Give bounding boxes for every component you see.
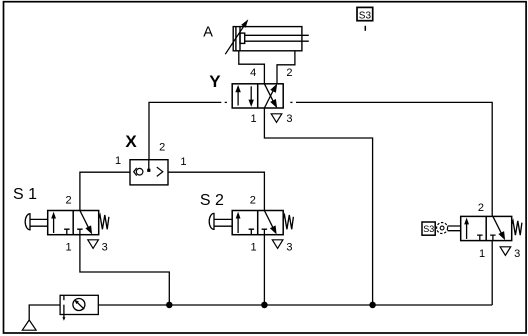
junction dot 3 xyxy=(369,302,376,309)
valve Y left cell up arrow xyxy=(237,89,239,106)
svg-text:2: 2 xyxy=(65,195,71,207)
valve S1 left cell blocked port xyxy=(64,229,70,235)
valve S1 3/2 body xyxy=(48,211,99,235)
cylinder A body xyxy=(233,27,309,51)
junction dot 2 xyxy=(261,302,268,309)
pilot line Y right (dash-dot) to valve S3 port 2 xyxy=(290,102,492,216)
valve S1 right cell blocked port xyxy=(77,229,83,235)
valve Y exhaust triangle port 3 xyxy=(271,114,282,123)
shuttle valve X ball xyxy=(136,168,143,175)
S3 position tick xyxy=(364,26,366,31)
shuttle valve X body xyxy=(130,160,168,185)
svg-text:2: 2 xyxy=(159,141,165,153)
shuttle valve X left seat xyxy=(134,168,137,176)
svg-text:4: 4 xyxy=(250,67,256,79)
svg-text:Y: Y xyxy=(209,72,221,91)
svg-text:3: 3 xyxy=(514,248,520,260)
wire valve S2 port 1 to supply xyxy=(263,235,265,305)
valve S2 push button xyxy=(209,213,214,229)
svg-text:1: 1 xyxy=(65,242,71,254)
valve S1 left cell arrow up xyxy=(53,215,55,233)
junction dot 1 xyxy=(166,302,173,309)
valve S3 exhaust triangle port 3 xyxy=(500,247,511,256)
svg-text:S 2: S 2 xyxy=(200,192,224,209)
svg-text:X: X xyxy=(125,132,137,151)
valve S3 left cell blocked port xyxy=(477,235,483,241)
compressed air source triangle xyxy=(22,320,36,330)
valve S2 right cell diagonal arrow 2-3 xyxy=(264,211,273,228)
wire valve S3 port 1 to supply xyxy=(491,241,493,305)
svg-text:2: 2 xyxy=(478,202,484,214)
air service unit xyxy=(60,295,98,318)
svg-text:S3: S3 xyxy=(359,10,372,21)
main supply line xyxy=(98,304,492,306)
valve Y port 1 line down and over to supply xyxy=(264,108,372,305)
shuttle valve X port 2 stub and node dot xyxy=(148,160,150,170)
svg-text:A: A xyxy=(203,24,213,40)
valve S2 exhaust triangle port 3 xyxy=(272,240,283,249)
valve S3 roller label box xyxy=(422,222,435,235)
svg-text:3: 3 xyxy=(102,242,108,254)
valve Y right cell cross arrow 1 (up-right) xyxy=(264,88,274,108)
valve S1 push button xyxy=(25,214,30,230)
shuttle valve X right seat xyxy=(157,167,163,176)
valve Y left cell down arrow xyxy=(250,86,252,103)
valve S1 exhaust triangle port 3 xyxy=(88,240,99,249)
svg-text:1: 1 xyxy=(251,242,257,254)
svg-text:3: 3 xyxy=(286,242,292,254)
wire shuttle X left port to valve S1 port 2 xyxy=(80,172,130,210)
wire valve S1 port 1 to supply xyxy=(80,235,169,305)
valve S3 right cell diagonal arrow 2-3 xyxy=(493,216,502,233)
valve S3 right cell blocked port xyxy=(490,235,496,241)
svg-text:3: 3 xyxy=(286,113,292,125)
supply line left of unit xyxy=(29,305,60,320)
svg-text:1: 1 xyxy=(180,156,186,168)
valve S3 3/2 body xyxy=(461,216,512,240)
wire cylinder rod end to valve Y port 2 xyxy=(277,51,295,84)
valve S2 left cell blocked port xyxy=(249,229,255,235)
valve S3 spring xyxy=(512,221,522,235)
pilot line Y left (dash-dot) to shuttle X xyxy=(149,102,227,159)
valve S2 3/2 body xyxy=(232,211,283,235)
svg-text:2: 2 xyxy=(286,67,292,79)
valve S2 spring xyxy=(283,215,293,229)
svg-text:S 1: S 1 xyxy=(13,186,37,203)
valve S1 right cell diagonal arrow 2-3 xyxy=(80,211,89,228)
valve S3 roller xyxy=(437,223,448,234)
air service unit regulator arrow tip xyxy=(74,300,79,305)
air service unit drain tip xyxy=(62,317,65,321)
valve S2 right cell blocked port xyxy=(262,229,268,235)
valve Y 4/2 body xyxy=(232,84,283,108)
wire shuttle X right port to valve S2 port 2 xyxy=(168,172,264,210)
valve S3 left cell arrow up xyxy=(466,221,468,239)
wire cylinder cap end to valve Y port 4 xyxy=(239,51,265,84)
valve S1 spring xyxy=(99,215,109,229)
valve Y right cell cross arrow 2 (down-right) xyxy=(264,84,274,104)
cylinder cushioning arrow xyxy=(225,23,246,54)
svg-text:1: 1 xyxy=(479,248,485,260)
valve S2 left cell arrow up xyxy=(237,215,239,233)
svg-text:S3: S3 xyxy=(423,224,434,234)
svg-text:1: 1 xyxy=(251,113,257,125)
svg-text:2: 2 xyxy=(250,195,256,207)
svg-text:1: 1 xyxy=(115,155,121,167)
limit switch marker S3 (top right) xyxy=(357,7,373,20)
